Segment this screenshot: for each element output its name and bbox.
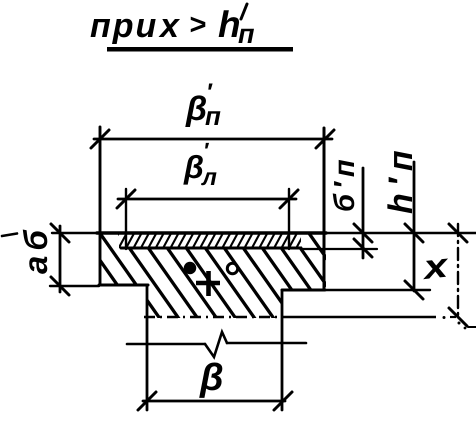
svg-text:при: при [90,7,158,45]
svg-text:>: > [189,9,206,41]
svg-text:x: x [158,7,181,45]
svg-text:л: л [201,164,217,191]
svg-text:п: п [205,101,221,131]
svg-text:β: β [183,149,204,185]
svg-text:п: п [238,19,255,49]
svg-text:h′п: h′п [382,143,420,214]
svg-text:аб: аб [17,225,54,274]
svg-text:β: β [199,357,224,399]
svg-text:β: β [185,90,207,128]
svg-text:б′п: б′п [329,154,361,212]
